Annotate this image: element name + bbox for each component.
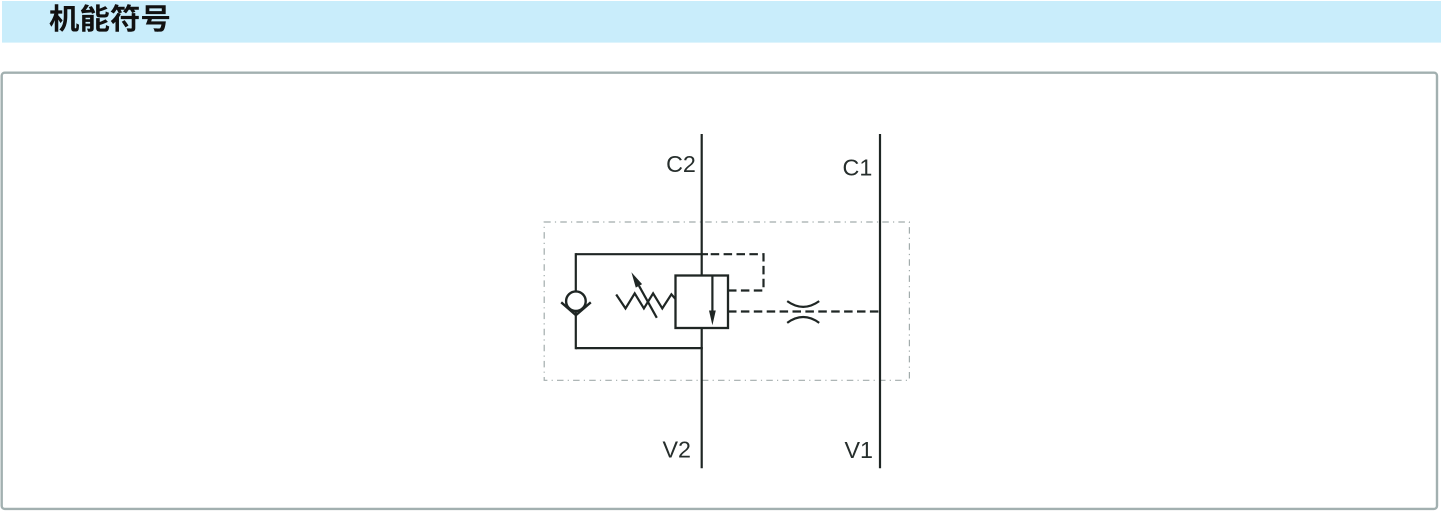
orifice: bottom arc: [787, 317, 819, 323]
pilot line (dashed) from C2 to relief valve top port: [708, 254, 764, 290]
relief valve U1: flow arrow shaft: [711, 276, 713, 312]
wire: bypass loop left vertical: [575, 253, 577, 349]
port line C1 (wire): [879, 134, 881, 468]
wire: bypass loop top horizontal: [576, 253, 708, 255]
check valve CV1: ball: [566, 291, 586, 311]
svg-text:V2: V2: [663, 437, 692, 463]
adjustable spring: [616, 293, 675, 308]
orifice: top arc: [787, 301, 819, 307]
svg-text:C2: C2: [666, 151, 696, 177]
pilot line (dashed) from relief valve to C1 through orifice: [728, 310, 880, 312]
svg-text:V1: V1: [845, 437, 874, 463]
header title 机能符号: [50, 4, 170, 32]
port line C2 (wire): [701, 134, 703, 468]
check valve CV1: seat: [561, 302, 591, 315]
adjustment arrow shaft: [639, 286, 657, 318]
relief valve U1: body: [676, 276, 729, 329]
relief valve U1: flow arrow head: [709, 311, 716, 326]
header bar: [2, 1, 1441, 43]
valve assembly boundary (dash-dot): [544, 222, 909, 380]
wire: bypass loop bottom horizontal: [576, 347, 703, 349]
svg-text:C1: C1: [843, 154, 873, 180]
adjustment arrow head: [631, 272, 642, 287]
